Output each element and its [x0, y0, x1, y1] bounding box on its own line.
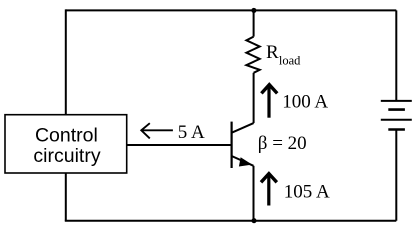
control circuitry box	[5, 115, 127, 173]
wire resistor top stub	[253, 10, 255, 36]
arrow 100 A head	[261, 85, 277, 94]
battery plate 2 short	[388, 108, 405, 111]
wire emitter vertical	[253, 166, 255, 221]
wire collector vertical	[253, 73, 255, 123]
svg-text:β = 20: β = 20	[258, 133, 307, 154]
arrow 5 A head	[141, 123, 150, 138]
wire top	[66, 9, 397, 11]
resistor Rload zigzag	[246, 37, 259, 73]
battery plate 4 short	[388, 128, 405, 131]
transistor Q1 collector lead	[232, 123, 254, 133]
arrow 105 A shaft	[267, 176, 270, 206]
node top junction	[251, 8, 256, 13]
svg-text:circuitry: circuitry	[33, 145, 100, 167]
transistor Q1 emitter arrowhead	[240, 159, 250, 166]
wire box bottom vertical	[65, 173, 67, 221]
svg-text:load: load	[279, 53, 301, 67]
svg-text:5 A: 5 A	[178, 122, 205, 143]
wire left vertical	[65, 9, 67, 114]
svg-text:R: R	[266, 42, 279, 63]
node bottom junction	[251, 218, 256, 223]
arrow 105 A head	[261, 174, 277, 183]
battery plate 3 long	[381, 119, 412, 121]
wire battery top vertical	[395, 10, 397, 101]
wire battery bottom vertical	[395, 130, 397, 221]
battery plate 1 long	[381, 100, 412, 102]
transistor Q1 base bar	[231, 122, 233, 168]
arrow 100 A shaft	[267, 87, 270, 118]
svg-text:100 A: 100 A	[282, 91, 328, 112]
transistor Q1 emitter lead	[232, 156, 254, 166]
arrow 5 A shaft	[141, 129, 173, 131]
wire base	[127, 144, 232, 146]
svg-text:105 A: 105 A	[284, 182, 330, 203]
svg-text:Control: Control	[35, 125, 98, 147]
wire bottom	[65, 220, 397, 222]
